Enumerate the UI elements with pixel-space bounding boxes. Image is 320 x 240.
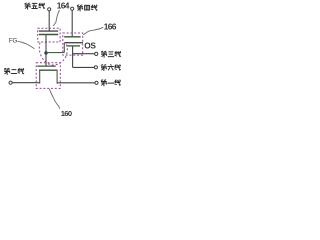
label 第六线 (sixth line) [101, 64, 120, 70]
terminal 第四线 [71, 7, 74, 10]
dashed box capacitor 164 [38, 28, 60, 42]
wire fifth line to capacitor top [48, 11, 50, 31]
pointer line to OS transistor 166 [83, 27, 103, 34]
OS transistor backgate bar [67, 45, 81, 47]
transistor 160 channel bar [39, 69, 58, 71]
svg-text:FG: FG [9, 37, 18, 44]
wire first line [57, 82, 95, 84]
dashed box OS transistor 166 [63, 33, 83, 55]
label 第三线 (third line) [101, 51, 120, 57]
label 第五线 (fifth line) [25, 3, 45, 9]
svg-text:166: 166 [104, 21, 117, 31]
pointer line to label 160 [49, 89, 59, 109]
svg-text:OS: OS [84, 41, 96, 51]
capacitor C164 plates [39, 31, 58, 34]
terminal 第五线 [48, 8, 51, 11]
dashed box transistor 160 [36, 63, 60, 89]
wire third line [73, 53, 95, 55]
wire FG node to OS source lead [46, 52, 64, 54]
svg-text:160: 160 [61, 109, 72, 118]
svg-text:164: 164 [57, 1, 70, 11]
wire capacitor bottom to FG node [45, 35, 47, 53]
transistor 160 right leg [56, 71, 58, 84]
FG pointer line [18, 41, 35, 49]
label 第四线 (fourth line) [77, 5, 97, 11]
label 第一线 (first line) [101, 80, 120, 86]
wire sixth line [73, 66, 95, 68]
FG node junction dot [44, 51, 47, 54]
OS transistor gate bar [64, 36, 81, 38]
label 第二线 (second line) [4, 68, 23, 74]
transistor 160 left leg [39, 71, 41, 84]
pointer line to capacitor 164 [53, 10, 59, 26]
transistor 160 gate bar [37, 65, 56, 67]
wire second line [12, 82, 40, 84]
terminal 第一线 [95, 81, 98, 84]
terminal 第三线 [95, 52, 98, 55]
OS transistor backgate lead down to sixth line [72, 46, 74, 67]
OS transistor channel bar [65, 42, 83, 44]
terminal 第六线 [94, 66, 97, 69]
terminal 第二线 [9, 81, 12, 84]
wire FG node to transistor 160 gate [45, 53, 47, 66]
wire fourth line to OS gate [71, 10, 73, 36]
FG dashed ellipse (floating gate region) [39, 42, 67, 65]
OS transistor source lead up from FG [63, 43, 65, 53]
